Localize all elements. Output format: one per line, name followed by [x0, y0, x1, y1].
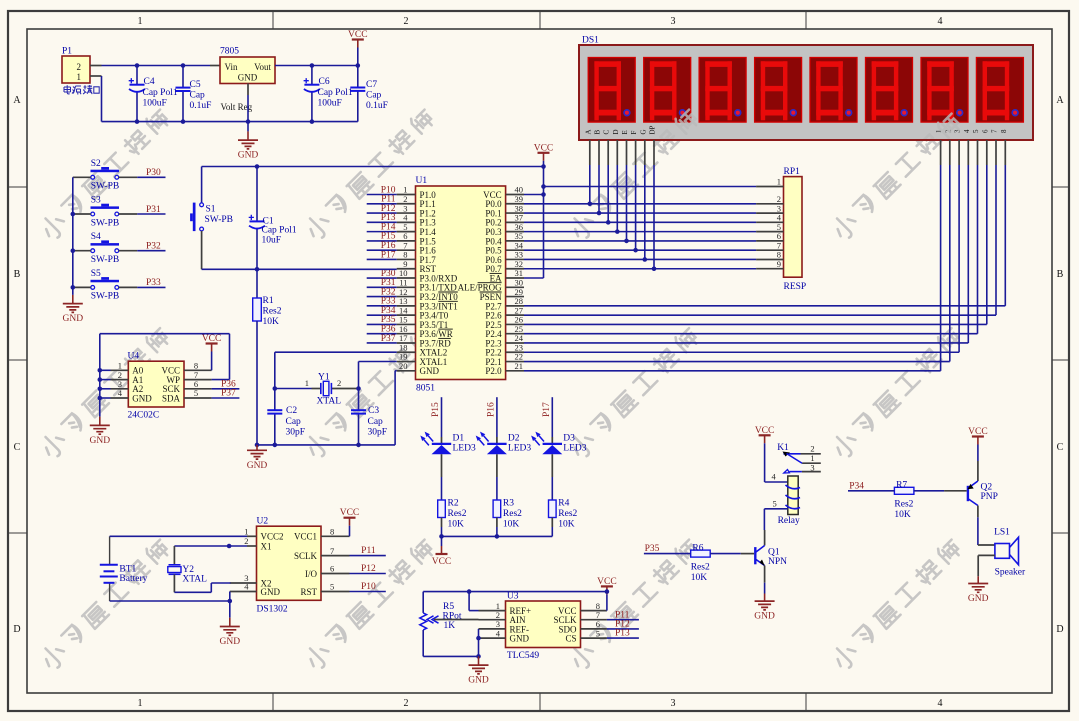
wire top rail to Vin — [102, 65, 211, 67]
U1 pin 36 — [506, 231, 524, 233]
wire R7 to base — [914, 490, 944, 492]
svg-text:GND: GND — [261, 587, 281, 597]
wire crystal ground rail — [257, 444, 395, 446]
U1 pin 10 P3.0 — [397, 277, 416, 279]
U1 pin 25 — [506, 333, 524, 335]
U2 pin 5 RST — [321, 591, 350, 593]
wire R2 bottom — [441, 518, 443, 528]
wire P2.6 to digit 7 — [524, 314, 996, 316]
svg-text:R5: R5 — [443, 602, 454, 612]
wire 7805 GND down — [247, 83, 249, 95]
wire VCC to RP1 pin1 — [544, 186, 757, 188]
wire EA to VCC — [524, 277, 544, 279]
svg-text:B: B — [594, 130, 602, 135]
svg-text:7805: 7805 — [220, 47, 239, 57]
svg-text:Cap: Cap — [366, 91, 382, 101]
wire P0.7 bus — [524, 268, 756, 270]
svg-text:GND: GND — [468, 676, 489, 686]
net label P16 — [367, 249, 397, 251]
svg-text:P33: P33 — [146, 278, 161, 288]
svg-text:P11: P11 — [361, 546, 376, 556]
svg-text:Cap Pol1: Cap Pol1 — [262, 226, 297, 236]
U3 pin 5 CS — [581, 637, 607, 639]
resistor R7 — [894, 480, 914, 520]
net label P12 (U3) — [607, 628, 639, 630]
svg-text:C5: C5 — [190, 80, 201, 90]
svg-text:TLC549: TLC549 — [507, 651, 539, 661]
svg-text:30pF: 30pF — [368, 428, 388, 438]
svg-text:C3: C3 — [368, 406, 379, 416]
svg-text:U1: U1 — [416, 176, 428, 186]
svg-text:24C02C: 24C02C — [128, 411, 160, 421]
digit 3 — [699, 58, 746, 123]
net label P34 — [367, 314, 397, 316]
U1 pin 19 XTAL1 — [397, 361, 416, 363]
net label P31 — [367, 286, 397, 288]
svg-text:10K: 10K — [558, 520, 575, 530]
LED D1 LED3 — [420, 432, 476, 455]
net label P36 — [367, 333, 397, 335]
U1 pin 33 — [506, 258, 524, 260]
switch S2 SW-PB — [91, 159, 120, 192]
ground GND U3 — [468, 656, 489, 685]
wire P2.0 to digit 1 — [524, 370, 941, 372]
U1 pin 27 — [506, 314, 524, 316]
svg-text:GND: GND — [63, 314, 84, 324]
svg-text:Vout: Vout — [254, 62, 271, 72]
svg-text:Cap Pol1: Cap Pol1 — [318, 88, 353, 98]
svg-text:PNP: PNP — [981, 492, 998, 502]
wire GND pin20 down — [395, 370, 397, 372]
svg-text:3: 3 — [671, 698, 676, 709]
svg-text:Q1: Q1 — [768, 548, 780, 558]
U1 pin 35 — [506, 240, 524, 242]
svg-text:S5: S5 — [91, 269, 101, 279]
LED D3 LED3 — [531, 432, 587, 455]
svg-text:F: F — [630, 131, 638, 135]
resistor R4 — [549, 499, 578, 530]
svg-text:3: 3 — [810, 463, 814, 473]
U1 pin 12 P3.2 — [397, 296, 416, 298]
ground GND U2 — [220, 601, 241, 647]
svg-text:1K: 1K — [444, 621, 456, 631]
svg-text:P13: P13 — [615, 629, 630, 639]
wire P0.5 bus — [524, 249, 756, 251]
svg-text:C: C — [603, 130, 611, 135]
digit 2 — [644, 58, 691, 123]
svg-text:P37: P37 — [381, 334, 396, 344]
wire U4 top loop to WP — [100, 333, 230, 335]
speaker LS1 — [994, 528, 1026, 578]
svg-text:R1: R1 — [263, 296, 274, 306]
wire REF-/GND loop — [478, 629, 480, 657]
svg-text:Res2: Res2 — [503, 509, 522, 519]
wire R3 bottom — [496, 518, 498, 528]
svg-text:P30: P30 — [146, 168, 161, 178]
svg-text:GND: GND — [420, 366, 440, 376]
wire P1 pin1 stub — [90, 75, 102, 77]
svg-text:2: 2 — [404, 16, 409, 27]
ic U2 DS1302 body — [257, 517, 322, 615]
svg-text:U2: U2 — [257, 517, 269, 527]
capacitor C2 — [267, 389, 305, 445]
wire P2.1 to digit 2 — [524, 361, 950, 363]
svg-text:10K: 10K — [691, 573, 708, 583]
svg-text:21: 21 — [515, 361, 524, 371]
net label P32 — [137, 250, 165, 252]
ic U3 TLC549 body — [506, 592, 581, 662]
battery BT1 — [100, 536, 148, 601]
net label P12 — [367, 212, 397, 214]
svg-text:5: 5 — [773, 499, 777, 509]
digit 5 — [810, 58, 857, 123]
wire bottom rail — [102, 121, 358, 123]
svg-text:VCC2: VCC2 — [261, 532, 284, 542]
svg-text:D1: D1 — [453, 434, 465, 444]
wire LED2 cathode — [496, 454, 498, 477]
svg-text:LED3: LED3 — [508, 444, 531, 454]
svg-text:NPN: NPN — [768, 557, 787, 567]
svg-text:SW-PB: SW-PB — [91, 292, 120, 302]
wire XTAL2 — [275, 351, 397, 353]
svg-text:GND: GND — [754, 612, 775, 622]
wire VCC rail to S1 — [202, 166, 544, 168]
svg-text:2: 2 — [77, 62, 82, 72]
svg-text:0.1uF: 0.1uF — [190, 101, 212, 111]
power VCC (U1/EA/RP1) — [534, 143, 554, 278]
svg-text:C: C — [1057, 442, 1064, 453]
svg-text:DS1302: DS1302 — [257, 605, 288, 615]
svg-text:C7: C7 — [366, 80, 377, 90]
U1 pin 5 P1.4 — [397, 231, 416, 233]
U2 pin 4 GND — [230, 591, 257, 593]
net label P32 — [367, 296, 397, 298]
net label P36 — [212, 388, 240, 390]
digit 6 — [866, 58, 913, 123]
svg-text:1: 1 — [138, 16, 143, 27]
net label P37 — [212, 397, 240, 399]
svg-text:A: A — [1056, 95, 1064, 106]
resistor R1 — [253, 269, 282, 445]
svg-text:GND: GND — [968, 594, 989, 604]
svg-text:VCC: VCC — [432, 557, 452, 567]
net label P37 — [367, 342, 397, 344]
wire coil pin5 to Q1 — [764, 508, 787, 510]
U2 pin 1 VCC2 — [247, 535, 257, 537]
U1 pin 40 — [506, 194, 524, 196]
svg-text:I/O: I/O — [305, 569, 317, 579]
svg-text:Cap: Cap — [190, 91, 206, 101]
svg-text:Res2: Res2 — [558, 509, 577, 519]
svg-text:P34: P34 — [849, 481, 864, 491]
net label P10 (U2) — [350, 591, 386, 593]
net label P14 — [367, 231, 397, 233]
svg-text:GND: GND — [238, 151, 259, 161]
svg-text:BT1: BT1 — [119, 565, 136, 575]
wire P0.6 bus — [524, 258, 756, 260]
svg-text:LED3: LED3 — [563, 444, 586, 454]
svg-text:2: 2 — [337, 378, 341, 388]
capacitor C1 — [249, 164, 297, 271]
svg-text:30pF: 30pF — [286, 428, 306, 438]
svg-text:Res2: Res2 — [263, 307, 282, 317]
U3 pin 2 AIN — [479, 619, 506, 621]
net label P34 — [848, 490, 894, 492]
wire S4 pins — [73, 250, 91, 252]
svg-text:R3: R3 — [503, 499, 514, 509]
svg-text:Y2: Y2 — [182, 565, 194, 575]
svg-text:P10: P10 — [361, 582, 376, 592]
capacitor C3 — [351, 389, 387, 445]
net label P10 — [367, 194, 397, 196]
wire RST rail — [202, 268, 397, 270]
svg-text:XTAL: XTAL — [182, 575, 207, 585]
wire R6 to base — [710, 553, 741, 555]
net label P12 (U2) — [350, 573, 386, 575]
svg-text:4: 4 — [938, 698, 943, 709]
svg-text:X1: X1 — [261, 541, 272, 551]
U1 pin 17 P3.7 — [397, 342, 416, 344]
wire R5 bottom — [422, 630, 424, 656]
svg-text:XTAL: XTAL — [317, 397, 342, 407]
svg-text:P31: P31 — [146, 205, 161, 215]
svg-text:Cap: Cap — [286, 417, 302, 427]
svg-text:3: 3 — [671, 16, 676, 27]
wire speaker to GND — [978, 554, 995, 556]
wire XTAL1 — [359, 361, 397, 363]
net label P33 — [137, 286, 165, 288]
wire LED2 anode — [496, 437, 498, 444]
wire U4 address rail — [100, 369, 111, 371]
wire S3 pins — [73, 213, 91, 215]
switch S1 SW-PB — [190, 203, 233, 232]
U1 pin 39 — [506, 203, 524, 205]
net label P17 — [367, 258, 397, 260]
switch S4 SW-PB — [91, 232, 120, 265]
wire P2.5 to digit 6 — [524, 323, 987, 325]
svg-text:2: 2 — [404, 698, 409, 709]
U1 pin 14 P3.4 — [397, 314, 416, 316]
svg-text:20: 20 — [399, 361, 408, 371]
wire battery top rail — [110, 535, 247, 537]
wire P1 pin1 down to bottom rail — [101, 76, 103, 122]
ic U1 8051 body — [416, 176, 506, 394]
svg-text:P15: P15 — [431, 402, 441, 417]
svg-text:Q2: Q2 — [981, 483, 993, 493]
svg-text:SW-PB: SW-PB — [91, 255, 120, 265]
digit 7 — [921, 58, 968, 123]
digit 4 — [755, 58, 802, 123]
svg-text:P35: P35 — [645, 544, 660, 554]
svg-text:RST: RST — [300, 587, 317, 597]
svg-text:8051: 8051 — [416, 384, 435, 394]
crystal Y1 XTAL — [273, 373, 361, 407]
wire LED3 anode — [551, 437, 553, 444]
U1 pin 32 — [506, 268, 524, 270]
svg-text:GND: GND — [247, 461, 268, 471]
U3 pin 7 SCLK — [581, 619, 607, 621]
svg-text:GND: GND — [220, 637, 241, 647]
wire switch ground rail — [72, 177, 74, 295]
wire GND pin4 — [229, 592, 231, 602]
overbars on active-low pin names — [438, 291, 458, 293]
svg-text:A: A — [13, 95, 21, 106]
svg-text:10uF: 10uF — [262, 236, 282, 246]
U1 pin 15 P3.5 — [397, 323, 416, 325]
net label P11 (U2) — [350, 555, 386, 557]
U1 pin 11 P3.1 — [397, 286, 416, 288]
net label P30 — [367, 277, 397, 279]
wire S1 bottom — [201, 231, 203, 269]
svg-text:2: 2 — [810, 444, 814, 454]
power VCC LEDs (inverted) — [432, 536, 452, 567]
wire VCC to coil pin4 — [765, 481, 788, 483]
svg-text:D2: D2 — [508, 434, 520, 444]
svg-text:0.1uF: 0.1uF — [366, 101, 388, 111]
U1 pin 18 XTAL2 — [397, 351, 416, 353]
svg-text:RP1: RP1 — [784, 167, 801, 177]
U1 pin 3 P1.2 — [397, 212, 416, 214]
svg-text:U4: U4 — [128, 352, 140, 362]
net label P30 — [137, 176, 165, 178]
power VCC U3 — [597, 577, 617, 611]
net label P11 — [367, 203, 397, 205]
svg-text:5: 5 — [972, 129, 980, 133]
wire P2.4 to digit 5 — [524, 333, 978, 335]
capacitor C7 — [350, 63, 388, 121]
svg-text:1: 1 — [305, 378, 309, 388]
wire LED1 cathode — [441, 454, 443, 477]
wire Vout rail — [275, 65, 358, 67]
svg-text:1: 1 — [77, 72, 82, 82]
wire P2.2 to digit 3 — [524, 351, 959, 353]
U2 pin 2 X1 — [247, 545, 257, 547]
wire R4 bottom — [551, 518, 553, 528]
power VCC relay — [755, 426, 775, 482]
wire LED3 cathode — [551, 454, 553, 477]
U4 pin 3 A2 — [111, 388, 129, 390]
U1 pin 26 — [506, 323, 524, 325]
potentiometer R5 RPot — [420, 602, 479, 631]
ground GND switches — [63, 295, 84, 324]
svg-text:5: 5 — [330, 582, 334, 592]
svg-text:Relay: Relay — [778, 516, 800, 526]
svg-text:RPot: RPot — [443, 612, 462, 622]
svg-text:Vin: Vin — [225, 62, 238, 72]
U2 pin 7 SCLK — [321, 555, 350, 557]
svg-text:10K: 10K — [894, 510, 911, 520]
net label P35 — [644, 553, 691, 555]
digit 1 — [588, 58, 635, 123]
svg-text:Res2: Res2 — [894, 500, 913, 510]
svg-text:7: 7 — [330, 546, 334, 556]
svg-text:GND: GND — [510, 634, 530, 644]
svg-text:C2: C2 — [286, 406, 297, 416]
U1 pin 34 — [506, 249, 524, 251]
svg-text:SDA: SDA — [162, 393, 181, 403]
U4 pin 1 A0 — [111, 369, 129, 371]
svg-text:GND: GND — [238, 73, 258, 83]
wire P2.3 to digit 4 — [524, 342, 968, 344]
wire U3 top loop — [423, 591, 607, 593]
crystal Y2 XTAL — [168, 544, 247, 585]
digit 8 — [976, 58, 1023, 123]
junction dots VCC column — [541, 164, 546, 169]
svg-text:G: G — [639, 129, 647, 134]
svg-text:VCC1: VCC1 — [294, 532, 317, 542]
svg-text:R6: R6 — [692, 543, 703, 553]
U1 pin 31 — [506, 277, 524, 279]
svg-text:CS: CS — [565, 634, 576, 644]
power VCC Q2 — [968, 427, 988, 461]
svg-text:S3: S3 — [91, 196, 101, 206]
U4 pin 2 A1 — [111, 379, 129, 381]
U1 pin 29 — [506, 296, 524, 298]
svg-text:S4: S4 — [91, 232, 101, 242]
U4 pin 7 WP — [184, 379, 212, 381]
svg-text:D3: D3 — [563, 434, 575, 444]
U3 pin 6 SDO — [581, 628, 607, 630]
svg-text:SCLK: SCLK — [294, 551, 318, 561]
wire collector to speaker — [977, 517, 979, 545]
U1 pin 7 P1.6 — [397, 249, 416, 251]
regulator 7805 — [220, 47, 275, 113]
wire LED1 anode — [441, 437, 443, 444]
svg-text:B: B — [14, 269, 21, 280]
svg-text:1: 1 — [138, 698, 143, 709]
svg-text:100uF: 100uF — [318, 99, 342, 109]
net label P31 — [137, 213, 165, 215]
transistor Q2 PNP — [967, 461, 998, 517]
U1 pin 8 P1.7 — [397, 258, 416, 260]
svg-text:P1: P1 — [62, 47, 72, 57]
wire P0.4 bus — [524, 240, 756, 242]
relay K1 contacts — [783, 444, 821, 474]
svg-text:S2: S2 — [91, 159, 101, 169]
svg-text:9: 9 — [777, 259, 781, 269]
U3 pin 1 REF+ — [479, 610, 506, 612]
wire REF+ branch — [468, 592, 470, 611]
svg-text:1: 1 — [777, 177, 781, 187]
U3 pin 8 VCC — [581, 610, 607, 612]
svg-text:Cap: Cap — [368, 417, 384, 427]
svg-text:8: 8 — [1000, 129, 1008, 133]
svg-text:LS1: LS1 — [994, 528, 1010, 538]
U4 pin 8 VCC — [184, 369, 212, 371]
wire P0.2 bus — [524, 221, 756, 223]
svg-text:SW-PB: SW-PB — [91, 182, 120, 192]
net label P13 (U3) — [607, 637, 639, 639]
net label P11 (U3) — [607, 619, 639, 621]
svg-text:100uF: 100uF — [143, 99, 167, 109]
U4 pin 5 SDA — [184, 397, 212, 399]
ic U4 24C02C body — [128, 352, 185, 421]
svg-text:5: 5 — [194, 388, 198, 398]
U1 pin 38 — [506, 212, 524, 214]
svg-text:6: 6 — [981, 129, 989, 133]
U1 pin 23 — [506, 351, 524, 353]
svg-text:C6: C6 — [319, 77, 330, 87]
wire P0.0 bus — [524, 203, 756, 205]
svg-text:K1: K1 — [777, 443, 789, 453]
U3 pin 4 GND — [479, 637, 506, 639]
svg-text:10K: 10K — [263, 317, 280, 327]
ground GND speaker — [968, 576, 989, 604]
svg-text:GND: GND — [132, 393, 152, 403]
transistor Q1 NPN — [755, 530, 787, 583]
svg-text:7: 7 — [991, 129, 999, 133]
svg-text:GND: GND — [90, 436, 111, 446]
